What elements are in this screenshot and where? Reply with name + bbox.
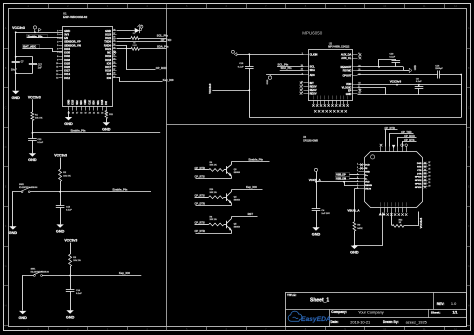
capacitor C15 <box>245 66 254 68</box>
wire EN <box>27 37 63 39</box>
svg-text:GND: GND <box>68 99 70 104</box>
svg-text:VCC3v3: VCC3v3 <box>390 80 402 84</box>
usb labels <box>336 173 350 177</box>
svg-text:16: 16 <box>72 113 74 115</box>
resistor R5 SDA <box>117 48 131 50</box>
title block <box>286 293 467 327</box>
svg-text:RESV: RESV <box>310 91 317 95</box>
capacitor C13 <box>56 205 65 207</box>
svg-text:S8050: S8050 <box>234 172 241 174</box>
svg-text:1.0: 1.0 <box>451 301 457 306</box>
power port circle <box>140 25 143 28</box>
svg-text:11: 11 <box>56 67 58 69</box>
svg-text:Enable_Pin: Enable_Pin <box>71 129 86 133</box>
svg-text:10k 1%: 10k 1% <box>35 118 42 120</box>
svg-text:CP_DTR: CP_DTR <box>195 229 206 233</box>
svg-text:20: 20 <box>89 113 91 115</box>
resistor R9 <box>353 222 356 231</box>
svg-text:G: G <box>5 264 7 268</box>
svg-text:Key_IO0: Key_IO0 <box>163 78 174 82</box>
transistor Q3 <box>226 166 228 174</box>
svg-text:CTS: CTS <box>417 170 422 172</box>
wire collector Enable_Pin <box>232 161 270 163</box>
capacitor C4 <box>312 208 321 210</box>
resistor R2 <box>59 169 62 181</box>
svg-text:VDD: VDD <box>365 182 370 184</box>
ground <box>103 122 110 125</box>
svg-text:EN: EN <box>64 36 68 40</box>
svg-text:MPU-6050_C24112: MPU-6050_C24112 <box>328 46 350 49</box>
svg-text:FSYNC: FSYNC <box>343 68 352 72</box>
svg-text:Sheet:: Sheet: <box>431 310 440 314</box>
svg-text:GND: GND <box>66 315 75 319</box>
svg-text:21: 21 <box>428 182 430 184</box>
svg-text:azeez_1925: azeez_1925 <box>406 320 427 325</box>
power port circle <box>33 26 36 29</box>
svg-text:H: H <box>5 303 7 307</box>
svg-text:REV:: REV: <box>437 302 445 306</box>
svg-text:D: D <box>468 145 470 149</box>
svg-text:C: C <box>5 105 7 109</box>
svg-text:Key_IO0: Key_IO0 <box>119 271 130 275</box>
svg-text:SD0: SD0 <box>94 100 96 105</box>
svg-text:GPIO1: GPIO1 <box>415 184 422 186</box>
svg-text:GPIO0: GPIO0 <box>415 187 422 189</box>
svg-text:E: E <box>468 185 470 189</box>
svg-text:IO34: IO34 <box>64 47 70 51</box>
x-marks INT RESV <box>300 82 303 85</box>
x EP <box>359 89 362 92</box>
svg-text:0.1uF: 0.1uF <box>66 210 72 212</box>
svg-text:RXD0: RXD0 <box>104 43 112 47</box>
svg-text:SDA: SDA <box>310 68 316 72</box>
svg-text:GND: GND <box>102 127 111 131</box>
svg-text:Date:: Date: <box>331 320 339 324</box>
svg-text:GPIO2: GPIO2 <box>415 180 422 182</box>
svg-text:20: 20 <box>428 186 430 188</box>
svg-text:IO33: IO33 <box>64 58 70 62</box>
wire collector RST <box>232 216 258 218</box>
svg-text:100R: 100R <box>132 45 137 47</box>
x-marks AUX <box>359 53 362 56</box>
svg-text:IO19: IO19 <box>105 54 111 58</box>
svg-text:SD1: SD1 <box>98 100 100 105</box>
svg-text:9: 9 <box>57 59 58 61</box>
ground <box>19 311 26 314</box>
svg-text:35: 35 <box>113 40 115 42</box>
mpu left: clkin wire <box>237 54 304 56</box>
svg-text:CP_TXD: CP_TXD <box>161 38 172 42</box>
svg-text:0.1uF: 0.1uF <box>389 56 395 58</box>
svg-text:R5: R5 <box>133 42 135 44</box>
svg-text:CP_RTS: CP_RTS <box>195 174 206 178</box>
wire BAT_ADC <box>23 49 63 52</box>
wire CP_TXD <box>117 41 167 43</box>
svg-text:DSR: DSR <box>417 163 422 165</box>
wire <box>70 267 72 290</box>
svg-text:Your Company: Your Company <box>358 309 384 314</box>
svg-text:SDA_Pin: SDA_Pin <box>281 66 292 70</box>
capacitor C14 <box>66 289 75 291</box>
section divider vertical <box>166 8 168 327</box>
svg-text:CLKIN: CLKIN <box>310 52 318 56</box>
svg-text:SENSOR_VN: SENSOR_VN <box>64 43 81 47</box>
VDD wire <box>358 84 462 86</box>
svg-text:IO18: IO18 <box>105 58 111 62</box>
svg-text:1: 1 <box>357 163 358 165</box>
svg-text:IO0: IO0 <box>107 76 112 80</box>
svg-text:A: A <box>468 26 470 30</box>
svg-text:GND: GND <box>105 29 111 33</box>
resistor R8 <box>209 223 224 226</box>
ground <box>12 91 19 94</box>
svg-text:CP_DTR: CP_DTR <box>195 202 206 206</box>
svg-text:D: D <box>5 145 7 149</box>
resistor R6 <box>209 169 224 172</box>
svg-text:19: 19 <box>84 113 86 115</box>
svg-text:RST: RST <box>248 212 254 216</box>
svg-text:IO26: IO26 <box>64 65 70 69</box>
REGOUT wires <box>358 66 404 68</box>
svg-text:TXD0: TXD0 <box>104 40 111 44</box>
wire VCC3v3 rotated <box>212 90 249 92</box>
svg-text:B: B <box>468 66 470 70</box>
svg-text:VBUS_A: VBUS_A <box>347 209 360 213</box>
svg-text:VDD: VDD <box>346 82 352 86</box>
svg-text:GND: GND <box>9 231 18 235</box>
svg-text:18: 18 <box>80 113 82 115</box>
bottom pin wire <box>355 213 383 246</box>
svg-text:10K 1%: 10K 1% <box>210 219 217 221</box>
wire collector Key_IO0 <box>232 189 263 191</box>
svg-text:CMD: CMD <box>85 99 87 105</box>
power port flag <box>39 28 41 31</box>
svg-text:Drawn By:: Drawn By: <box>383 320 399 324</box>
svg-text:SCL: SCL <box>310 65 316 69</box>
svg-text:H: H <box>468 303 470 307</box>
svg-text:24: 24 <box>428 171 430 174</box>
svg-text:7: 7 <box>57 52 58 54</box>
cp2102 bottom pins <box>381 208 407 213</box>
svg-text:22: 22 <box>97 113 99 115</box>
capacitor C17 <box>29 63 37 65</box>
svg-text:GND: GND <box>18 316 27 320</box>
VBUS_A <box>355 189 359 222</box>
svg-text:6: 6 <box>57 49 58 51</box>
vertical rail <box>249 55 251 118</box>
svg-text:CP_RXD: CP_RXD <box>156 66 167 70</box>
svg-text:IO15: IO15 <box>102 99 104 105</box>
svg-text:27: 27 <box>428 162 430 164</box>
wire <box>106 119 108 123</box>
svg-text:NC: NC <box>107 51 111 55</box>
wire emitter <box>196 178 232 180</box>
svg-text:E: E <box>5 185 7 189</box>
svg-text:INT: INT <box>310 81 315 85</box>
svg-text:5: 5 <box>57 45 58 47</box>
svg-text:IO22: IO22 <box>105 36 111 40</box>
svg-text:Enable_Pin: Enable_Pin <box>113 187 128 191</box>
capacitor C9 <box>415 86 424 88</box>
section divider horizontal <box>167 124 467 126</box>
svg-text:3: 3 <box>57 38 58 40</box>
svg-text:RESV: RESV <box>310 88 317 92</box>
svg-text:S8050: S8050 <box>234 199 241 201</box>
svg-text:SD3: SD3 <box>81 100 83 105</box>
svg-text:VCC3v3: VCC3v3 <box>208 83 212 94</box>
svg-text:IO27: IO27 <box>64 69 70 73</box>
svg-text:IO14: IO14 <box>64 72 70 76</box>
svg-text:IO25: IO25 <box>64 61 70 65</box>
svg-text:547K: 547K <box>357 227 363 230</box>
svg-text:ESP-WROOM-32: ESP-WROOM-32 <box>63 15 88 19</box>
wire 3V3 rail <box>16 32 63 34</box>
svg-text:3: 3 <box>357 170 358 172</box>
svg-text:CP_RTS: CP_RTS <box>195 193 206 197</box>
wire <box>60 158 62 170</box>
svg-text:C17: C17 <box>38 64 43 66</box>
capacitor C20 <box>379 60 396 67</box>
wire emitter <box>196 205 232 207</box>
svg-text:12: 12 <box>56 70 58 72</box>
svg-text:EP: EP <box>348 89 352 93</box>
svg-text:G: G <box>468 264 470 268</box>
svg-text:17: 17 <box>76 113 78 115</box>
svg-text:IO17: IO17 <box>105 65 111 69</box>
EasyEDA logo <box>288 311 331 323</box>
wire <box>70 291 72 310</box>
svg-text:GND: GND <box>312 232 321 236</box>
svg-text:BAT_ADC: BAT_ADC <box>23 45 36 49</box>
svg-text:13: 13 <box>56 74 58 76</box>
gnd flag <box>409 68 412 72</box>
svg-text:2200pF: 2200pF <box>435 68 443 70</box>
svg-text:IO35: IO35 <box>64 51 70 55</box>
svg-text:EasyEDA: EasyEDA <box>301 316 331 323</box>
svg-text:RESV: RESV <box>310 85 317 89</box>
wire to gnd <box>23 276 34 311</box>
net label Enable_Pin <box>27 35 48 38</box>
net SCL_Pin <box>277 66 303 68</box>
svg-text:0.1uF: 0.1uF <box>76 293 82 295</box>
svg-text:3V3: 3V3 <box>64 32 69 36</box>
svg-text:AUX_DA: AUX_DA <box>341 53 352 57</box>
svg-text:25: 25 <box>428 169 430 171</box>
svg-text:GND: GND <box>64 29 70 33</box>
mpu bottom pins <box>314 101 348 105</box>
svg-text:GND: GND <box>415 65 417 70</box>
resistor R12 <box>391 213 393 226</box>
svg-text:Key_IO0: Key_IO0 <box>246 185 257 189</box>
svg-text:CP_RTS: CP_RTS <box>195 221 206 225</box>
wire Enable_Pin 2 <box>60 191 151 193</box>
svg-text:GND: GND <box>56 229 65 233</box>
svg-text:D-: D- <box>365 178 368 180</box>
port flag gnd <box>234 53 237 56</box>
svg-text:SCL_Pin: SCL_Pin <box>157 34 168 38</box>
ground <box>312 227 319 230</box>
svg-text:10uF: 10uF <box>11 69 17 72</box>
wire <box>32 99 34 112</box>
wire gnd drop <box>68 111 70 117</box>
wire to gnd <box>13 192 22 227</box>
svg-text:2019-10-21: 2019-10-21 <box>350 319 370 324</box>
cp2102 top pins <box>381 147 407 152</box>
svg-text:0.1uF: 0.1uF <box>238 66 244 68</box>
svg-text:VCC3v3: VCC3v3 <box>28 95 41 99</box>
svg-text:REGIN: REGIN <box>365 185 372 187</box>
svg-text:B: B <box>5 66 7 70</box>
svg-text:VCC3v3: VCC3v3 <box>419 217 423 228</box>
svg-text:A: A <box>5 26 7 30</box>
svg-text:IO21: IO21 <box>105 47 111 51</box>
svg-text:GND: GND <box>365 172 370 174</box>
svg-text:Enable_Pin: Enable_Pin <box>249 158 264 162</box>
svg-text:IO5: IO5 <box>107 61 112 65</box>
svg-text:10K 1%: 10K 1% <box>210 165 217 167</box>
svg-text:REGOUT: REGOUT <box>340 65 351 69</box>
svg-text:CPOUT: CPOUT <box>342 73 351 77</box>
svg-text:RTS: RTS <box>417 167 422 169</box>
svg-text:1uF: 1uF <box>38 68 43 70</box>
wire Enable_Pin <box>32 132 160 134</box>
svg-text:SENSOR_VP: SENSOR_VP <box>64 40 81 44</box>
svg-text:10K 1%: 10K 1% <box>210 192 217 194</box>
svg-text:10k 1%: 10k 1% <box>73 260 80 262</box>
GND rail <box>358 94 462 96</box>
svg-text:GND: GND <box>64 122 73 126</box>
svg-text:IO23: IO23 <box>105 32 111 36</box>
svg-text:26: 26 <box>428 165 430 167</box>
svg-text:GND: GND <box>11 96 20 100</box>
svg-text:SDA_Pin: SDA_Pin <box>157 45 169 49</box>
svg-text:SCL_Pin: SCL_Pin <box>278 62 289 66</box>
svg-text:1uF 10V: 1uF 10V <box>321 213 330 215</box>
svg-text:GND: GND <box>350 251 359 255</box>
wire <box>60 208 62 225</box>
svg-text:AUX_CL: AUX_CL <box>341 56 352 60</box>
resistor R10 <box>209 196 224 199</box>
ground <box>29 153 36 156</box>
svg-text:21: 21 <box>93 113 95 115</box>
capacitor C7 <box>12 61 20 63</box>
resistor R11 <box>105 111 108 119</box>
svg-text:27: 27 <box>113 69 115 71</box>
ground <box>66 310 73 313</box>
right riser <box>461 75 463 118</box>
wire node <box>32 121 34 139</box>
svg-text:IO12: IO12 <box>64 76 70 80</box>
wire cap rail <box>16 33 33 91</box>
svg-text:MPU6050: MPU6050 <box>302 31 323 36</box>
svg-text:23: 23 <box>428 175 430 177</box>
svg-text:GND: GND <box>346 92 352 96</box>
led D2 <box>135 28 140 33</box>
svg-text:IO16: IO16 <box>105 69 111 73</box>
svg-text:CLK: CLK <box>89 100 91 105</box>
svg-text:IO13: IO13 <box>73 99 75 105</box>
AD0 wire + gnd port <box>266 74 303 76</box>
svg-text:8: 8 <box>57 56 58 58</box>
svg-text:VCC3v3: VCC3v3 <box>12 26 25 30</box>
svg-text:GPIO3: GPIO3 <box>415 177 422 179</box>
svg-text:10: 10 <box>56 63 58 65</box>
ground <box>56 224 63 227</box>
svg-text:TITLE:: TITLE: <box>287 293 296 297</box>
wire Key_IO0 <box>117 78 163 82</box>
svg-text:SW2: SW2 <box>19 184 25 186</box>
svg-text:DCD: DCD <box>365 165 370 167</box>
svg-text:2: 2 <box>357 167 358 169</box>
CPOUT wire + C16 <box>358 74 438 76</box>
svg-text:10k 1%: 10k 1% <box>63 175 70 177</box>
svg-text:SD2: SD2 <box>77 100 79 105</box>
svg-text:IO32: IO32 <box>64 54 70 58</box>
NC x-mark <box>113 51 116 54</box>
svg-text:C: C <box>468 105 470 109</box>
svg-text:DTR: DTR <box>417 173 422 175</box>
svg-text:IO4: IO4 <box>107 72 112 76</box>
svg-text:Company:: Company: <box>331 310 347 314</box>
svg-text:0.1uF: 0.1uF <box>416 81 422 83</box>
wire led <box>117 30 135 32</box>
svg-text:2: 2 <box>57 34 58 36</box>
svg-text:0.1uF: 0.1uF <box>37 142 43 144</box>
wire CP_RXD <box>117 46 156 70</box>
svg-text:VBUS: VBUS <box>365 189 372 191</box>
net label BAT_ADC <box>23 45 40 49</box>
ground <box>65 117 72 120</box>
wire <box>60 182 62 206</box>
wire <box>32 140 34 153</box>
svg-text:GND: GND <box>28 158 37 162</box>
VLOGIC wire <box>358 88 386 95</box>
transistor Q5 <box>226 221 228 229</box>
wire <box>70 243 72 255</box>
wire Key_IO0 <box>70 275 141 277</box>
svg-text:SW1: SW1 <box>31 269 37 271</box>
VCC5 power <box>314 168 317 171</box>
svg-text:Sheet_1: Sheet_1 <box>310 298 329 304</box>
net SDA_Pin <box>280 70 304 72</box>
svg-text:GND: GND <box>267 79 269 84</box>
resistor R3 <box>69 254 72 266</box>
wire emitter <box>196 233 232 235</box>
svg-text:AD0: AD0 <box>310 73 316 77</box>
svg-text:USB_DM: USB_DM <box>336 178 346 180</box>
svg-text:23: 23 <box>101 113 103 115</box>
ground <box>9 226 16 229</box>
svg-text:VCC3v3: VCC3v3 <box>54 154 67 158</box>
svg-text:1/1: 1/1 <box>453 311 458 315</box>
svg-text:VCC3v3: VCC3v3 <box>64 239 77 243</box>
ground <box>351 246 358 249</box>
transistor Q4 <box>226 193 228 201</box>
capacitor C12 <box>28 138 37 140</box>
svg-text:CP2102-GMR: CP2102-GMR <box>303 140 318 143</box>
bottom rail <box>249 117 461 119</box>
svg-text:22: 22 <box>428 179 430 181</box>
svg-text:S8050: S8050 <box>234 227 241 229</box>
resistor R1 <box>31 112 34 121</box>
wire <box>106 110 108 113</box>
